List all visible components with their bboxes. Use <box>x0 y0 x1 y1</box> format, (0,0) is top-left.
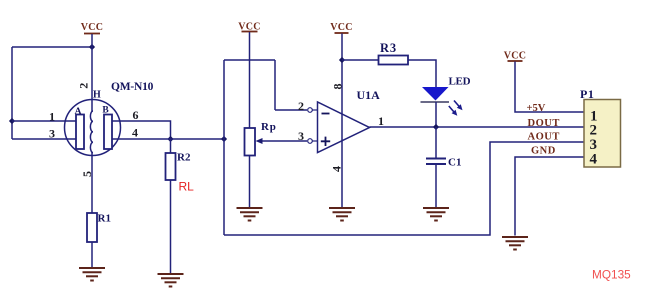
wire output node down to C1 <box>435 127 437 159</box>
wire heater bottom to sensor pin5 and down to R1 <box>91 153 93 214</box>
wire Rp lower stub <box>249 156 251 208</box>
wire VCC down to sensor pin2 / heater top <box>91 34 93 111</box>
svg-text:3: 3 <box>298 129 304 143</box>
svg-text:VCC: VCC <box>330 22 353 33</box>
svg-text:P1: P1 <box>580 87 594 101</box>
svg-text:A: A <box>75 107 82 117</box>
wire sensor pin6 to corner and down <box>112 121 171 139</box>
wire feedback top horizontal <box>224 59 275 61</box>
ground (GND net) <box>502 237 528 250</box>
svg-text:AOUT: AOUT <box>528 132 560 143</box>
svg-text:Rp: Rp <box>261 121 277 133</box>
wire C1 lower stub <box>435 164 437 208</box>
wire sensor pin4 to op-amp node <box>112 138 224 140</box>
wire sensor pin3 <box>12 138 76 140</box>
svg-text:4: 4 <box>132 126 138 140</box>
wire LED to output node <box>435 102 437 127</box>
wire VCC tap to R3 <box>342 59 379 61</box>
ground (R2) <box>158 274 184 287</box>
junction sensor output node <box>221 136 227 142</box>
wire feedback right vertical down to inverting input <box>274 60 276 110</box>
ground (R1) <box>79 268 105 281</box>
wire P1 pin4 to ground drop <box>515 157 584 236</box>
svg-text:VCC: VCC <box>81 22 104 33</box>
sensor electrode A <box>76 115 84 150</box>
pin stub into minus input <box>312 109 317 111</box>
svg-text:U1A: U1A <box>357 88 381 102</box>
wire R2 lower stub <box>170 180 172 274</box>
svg-text:4: 4 <box>590 152 598 168</box>
svg-text:LED: LED <box>449 76 471 88</box>
LED emission arrow 2 <box>449 106 458 116</box>
wire feedback vertical (sensor node up and down) <box>223 60 225 235</box>
potentiometer Rp body <box>245 128 256 156</box>
wire R1 lower stub <box>91 242 93 268</box>
junction pin6/R2 node <box>167 136 173 142</box>
minus sign <box>322 113 330 115</box>
svg-text:3: 3 <box>49 127 55 141</box>
svg-text:1: 1 <box>49 110 55 124</box>
resistor R1 <box>87 213 97 242</box>
resistor R2 <box>166 153 176 180</box>
power symbol VCC (op-amp) <box>330 22 353 33</box>
svg-text:R1: R1 <box>98 213 111 225</box>
svg-text:4: 4 <box>329 166 343 172</box>
ground (C1) <box>423 208 449 221</box>
op-amp inverting input circle pin 2 <box>308 108 313 113</box>
wire R3 to LED corner <box>408 60 436 87</box>
junction R3 supply tap <box>339 57 345 63</box>
svg-text:RL: RL <box>179 180 195 194</box>
sensor heater coil H <box>90 111 93 153</box>
svg-text:R2: R2 <box>177 152 191 164</box>
svg-text:VCC: VCC <box>504 51 527 62</box>
svg-text:H: H <box>93 90 101 101</box>
pin stub into plus input <box>312 140 317 142</box>
svg-text:5: 5 <box>80 171 94 177</box>
sensor electrode B <box>104 115 112 150</box>
LED emission arrow 1 <box>454 101 463 111</box>
wire left rail vertical <box>11 47 13 139</box>
junction VCC node <box>89 44 95 50</box>
wire R2 upper stub <box>170 139 172 153</box>
wire bottom rail to AOUT <box>224 142 584 235</box>
power symbol VCC (left, sensor heater supply) <box>81 22 104 34</box>
wire VCC right down and to P1 pin1 <box>515 62 584 113</box>
wire op-amp power pin 8 to pin 4 vertical <box>341 34 343 208</box>
junction LED/C1 node <box>433 124 439 130</box>
wire to op-amp pin 2 <box>275 109 307 111</box>
svg-text:R3: R3 <box>380 41 397 55</box>
wire sensor pin1 <box>12 120 76 122</box>
svg-text:8: 8 <box>331 84 345 90</box>
svg-text:GND: GND <box>531 146 556 157</box>
power symbol VCC (middle, Rp supply) <box>238 22 261 33</box>
svg-text:C1: C1 <box>448 157 461 169</box>
power symbol VCC (right, connector supply) <box>504 51 527 62</box>
Rp wiper arrow and wire to op-amp pin 3 <box>256 138 308 144</box>
LED D1 triangle <box>422 87 449 101</box>
ground (op-amp pin 4) <box>329 208 355 221</box>
connector P1 body <box>584 100 621 168</box>
capacitor C1 <box>426 159 446 165</box>
plus sign <box>321 137 330 146</box>
op-amp non-inverting input circle pin 3 <box>308 139 313 144</box>
wire op-amp output to P1 pin2 (DOUT) <box>370 126 585 128</box>
LED cathode bar <box>421 101 450 103</box>
svg-text:6: 6 <box>133 108 139 122</box>
svg-text:+5V: +5V <box>527 103 546 114</box>
svg-text:QM-N10: QM-N10 <box>111 81 154 93</box>
junction left rail pin1 tap <box>9 118 15 124</box>
op-amp U1A triangle <box>318 102 370 153</box>
svg-text:2: 2 <box>298 99 304 113</box>
ground (Rp) <box>237 208 263 221</box>
svg-text:MQ135: MQ135 <box>592 268 631 282</box>
gas sensor QM-N10 body circle <box>65 100 121 156</box>
wire top-left horizontal from left rail to VCC node <box>12 46 92 48</box>
svg-text:B: B <box>102 106 109 116</box>
svg-text:1: 1 <box>378 114 384 128</box>
svg-text:DOUT: DOUT <box>528 118 560 129</box>
svg-text:2: 2 <box>77 83 91 89</box>
wire VCC mid down to Rp <box>249 32 251 128</box>
resistor R3 <box>379 56 409 65</box>
